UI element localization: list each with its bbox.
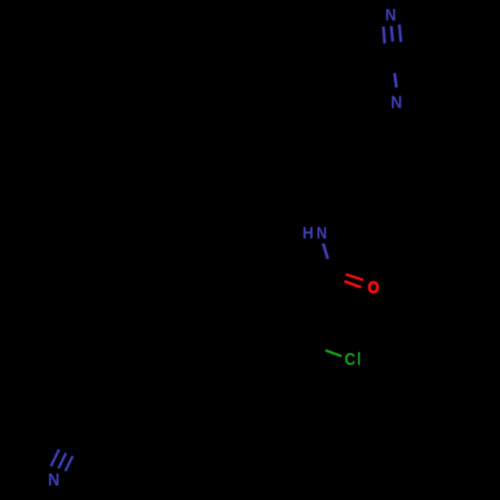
- svg-text:l: l: [357, 351, 361, 370]
- svg-text:N: N: [317, 225, 327, 243]
- svg-text:N: N: [385, 6, 396, 25]
- svg-text:O: O: [368, 279, 379, 297]
- svg-text:C: C: [345, 350, 356, 369]
- svg-text:H: H: [302, 225, 313, 243]
- svg-text:N: N: [391, 92, 402, 112]
- svg-text:N: N: [48, 470, 60, 490]
